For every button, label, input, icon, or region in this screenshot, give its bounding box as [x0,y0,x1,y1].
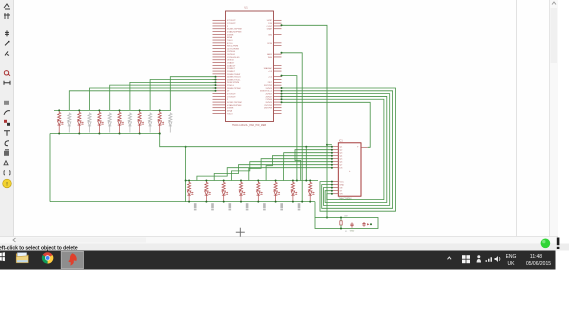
taskbar [0,251,556,270]
svg-text:SH: SH [340,194,343,196]
node row1 unit4 junctions [119,109,121,111]
svg-text:28/MELT/PWM: 28/MELT/PWM [227,88,241,90]
svg-text:4/TAB-RX/PWM: 4/TAB-RX/PWM [227,104,242,107]
U1 left pins [213,20,242,115]
tray speaker icon [495,256,499,262]
LED LED8 [205,191,211,202]
svg-text:25/MELT/TOLL: 25/MELT/TOLL [227,79,241,81]
status green indicator [541,239,551,249]
svg-text:26/N25: 26/N25 [266,102,273,104]
svg-text:VCC: VCC [340,182,345,184]
wire row1 bottom rail [50,133,160,135]
svg-text:5/SWR: 5/SWR [227,34,234,36]
svg-text:0/TOS1/T: 0/TOS1/T [227,20,236,22]
wire U1 to row2 rail end [282,53,303,202]
svg-text:GND: GND [340,185,345,187]
folder icon file explorer [16,253,28,263]
cursor crosshair [236,231,245,233]
eagle icon [68,253,76,265]
wire wrap U1 to IC2 pin group [281,87,396,211]
resistor R7 [188,181,191,191]
toolbar icons [4,4,10,9]
LED LED2 [78,121,84,134]
node row1 unit2 junctions [78,109,80,111]
resistor R11 [257,181,260,191]
svg-text:16M: 16M [344,216,348,218]
tray person icon [477,255,480,258]
svg-text:CL/S7: CL/S7 [266,26,272,28]
LED LED13 [291,191,297,202]
node row2 unit3 junctions [223,180,225,182]
node row2 unit6 junctions [275,180,277,182]
LED LED10 [239,191,245,202]
left toolbar [0,0,14,237]
resistor R6 [158,110,161,120]
tray network icon [486,257,493,262]
svg-text:6/INA: 6/INA [227,36,233,39]
wire U1 to IC2 right pin [282,102,371,147]
start button partial [0,253,2,257]
LED LED14 [308,191,314,202]
svg-text:18/SCK: 18/SCK [227,60,235,62]
wire staircase U1-left to row1 [69,76,216,111]
svg-text:31/N29: 31/N29 [266,88,273,90]
svg-text:27/N44: 27/N44 [266,99,273,101]
node row2 unit8 junctions [309,180,311,182]
svg-text:05/06/2015: 05/06/2015 [526,261,551,267]
svg-text:ROM: ROM [267,43,272,45]
resistor R9 [222,181,225,191]
svg-text:3/CBR-TX/PWM: 3/CBR-TX/PWM [227,29,242,31]
ghost labels under row2 [194,203,300,210]
LED LED3 [98,121,104,134]
LED LED5 [138,121,144,134]
svg-text:7/SLO: 7/SLO [227,113,233,115]
LED LED1 [57,121,63,134]
capacitor C2 [362,222,372,227]
svg-text:22/MELT: 22/MELT [227,71,236,73]
node row1 unit5 junctions [139,109,141,111]
node row2 unit1 junctions [188,180,190,182]
resistor R8 [205,181,208,191]
LED LED9 [222,191,228,202]
ghost selected parts row1 [68,112,172,132]
wire row2 left drop [185,147,187,202]
svg-text:23LT: 23LT [268,82,273,84]
resistor R12 [274,181,277,191]
resistor R2 [78,110,81,120]
shift register IC2 74HC595 [338,140,361,201]
wire row2 top rail [186,180,318,182]
svg-text:9/RCL/PWM: 9/RCL/PWM [227,46,238,48]
status exclamation [557,238,560,246]
svg-text:23/MELT/SSW: 23/MELT/SSW [227,74,240,76]
wire staircase row2 to IC2 [197,149,333,181]
resistor R14 [309,181,312,191]
IC2 pins [332,147,368,196]
svg-text:GND: GND [350,230,355,232]
wire row1 top rail [54,109,171,111]
svg-text:27/HILL: 27/HILL [227,85,235,87]
wire row2 bottom rail [50,201,315,203]
svg-text:21/MELT: 21/MELT [227,68,236,70]
resistor R4 [118,110,121,120]
chrome icon [42,252,53,263]
svg-text:24/MELT/SCLK: 24/MELT/SCLK [227,77,241,79]
horizontal scrollbar [0,237,558,244]
svg-text:11:48: 11:48 [530,254,542,260]
svg-text:28/N47: 28/N47 [266,96,273,98]
svg-text:33/N3/TOLL1: 33/N3/TOLL1 [260,91,273,93]
svg-text:1/TOS2/T: 1/TOS2/T [227,96,236,98]
svg-text:ENG: ENG [506,254,517,260]
svg-text:8/TC0: 8/TC0 [227,43,233,45]
svg-text:15/PEG0: 15/PEG0 [227,51,236,53]
svg-text:X1: X1 [345,231,347,233]
svg-text:1SS: 1SS [268,23,272,25]
svg-text:20/AD1/T: 20/AD1/T [227,64,236,67]
svg-text:36A/DAC: 36A/DAC [264,67,273,70]
wire row1-to-row2 left loop [49,134,51,202]
svg-text:3/CBR-TX/PWM: 3/CBR-TX/PWM [227,102,242,104]
eagle app button active [61,251,83,268]
capacitor C1 [350,223,355,233]
node row1 unit1 junctions [58,109,60,111]
LED LED7 [187,191,193,202]
resistor R13 [291,181,294,191]
node row1 unit3 junctions [98,109,100,111]
LED LED6 [158,121,164,134]
tray action center icon [462,255,466,259]
svg-text:DBA7: DBA7 [267,28,273,31]
svg-text:26/SET/PWM: 26/SET/PWM [227,82,239,84]
svg-text:25/T/PW: 25/T/PW [264,105,272,107]
svg-text:2N/T/PW: 2N/T/PW [264,108,272,110]
svg-text:A80F: A80F [267,53,273,56]
svg-text:UK: UK [508,261,516,267]
node row2 unit7 junctions [292,180,294,182]
LED LED12 [274,191,280,202]
resistor R1 [58,110,61,120]
svg-text:14/TT2/PWM: 14/TT2/PWM [227,48,239,50]
svg-text:1/TOS2/T: 1/TOS2/T [227,23,236,25]
op-amp U1 main MCU symbol TM4C123GXL [226,6,274,127]
svg-text:16/PEG1: 16/PEG1 [227,54,236,56]
svg-text:U1: U1 [244,6,248,10]
wire riser unit8 row2 [305,147,307,181]
wire bottom loop [314,202,316,218]
crystal Q1 [340,216,348,234]
svg-text:14/SP: 14/SP [267,20,273,22]
svg-text:4/TAB-RX/PWM: 4/TAB-RX/PWM [227,30,242,33]
LED LED11 [257,191,263,202]
svg-text:19/AD/T: 19/AD/T [227,62,235,65]
resistor R3 [98,110,101,120]
wire U1 to loop long vertical [282,25,328,217]
svg-text:7/SLO: 7/SLO [227,40,233,42]
U1 right pins [260,20,281,113]
svg-text:0/TOS1/T: 0/TOS1/T [227,94,236,96]
svg-text:IC1: IC1 [339,140,343,143]
svg-text:6/INA: 6/INA [227,109,233,112]
resistor R10 [239,181,242,191]
svg-text:3S/T/PW: 3S/T/PW [264,85,272,87]
vertical scrollbar [550,0,559,237]
frame border line [516,0,518,237]
status bar [0,244,569,251]
node row2 unit4 junctions [240,180,242,182]
svg-text:17/PEG2/LED: 17/PEG2/LED [227,57,240,59]
wire stub to IC2 vcc [327,144,332,146]
svg-text:26/S6T: 26/S6T [266,94,273,96]
tray chevron [448,257,452,259]
node row1 unit6 junctions [159,109,161,111]
node row2 unit2 junctions [205,180,207,182]
node row2 unit5 junctions [257,180,259,182]
wire row1 rail to IC2 pin1 [160,134,332,147]
svg-text:5/SWR: 5/SWR [227,108,234,110]
wire U1 to row2 top rail [282,76,297,181]
LED LED4 [118,121,124,134]
svg-text:TM4C-123GXL_PAD_HID_MEB: TM4C-123GXL_PAD_HID_MEB [232,124,267,127]
resistor R5 [138,110,141,120]
